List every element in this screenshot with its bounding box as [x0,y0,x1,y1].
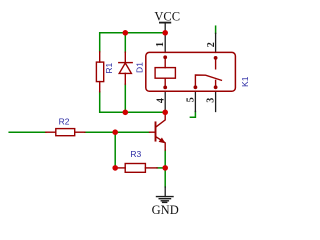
svg-text:GND: GND [152,203,179,217]
svg-text:4: 4 [156,98,167,103]
svg-text:D1: D1 [134,62,144,73]
svg-text:K1: K1 [240,76,250,87]
svg-text:R1: R1 [104,62,114,73]
svg-text:R2: R2 [59,116,70,126]
svg-text:2: 2 [206,42,217,47]
svg-text:R3: R3 [130,149,141,159]
svg-text:3: 3 [206,98,217,103]
svg-text:VCC: VCC [154,9,180,23]
svg-text:1: 1 [155,42,166,47]
svg-text:5: 5 [185,97,196,102]
